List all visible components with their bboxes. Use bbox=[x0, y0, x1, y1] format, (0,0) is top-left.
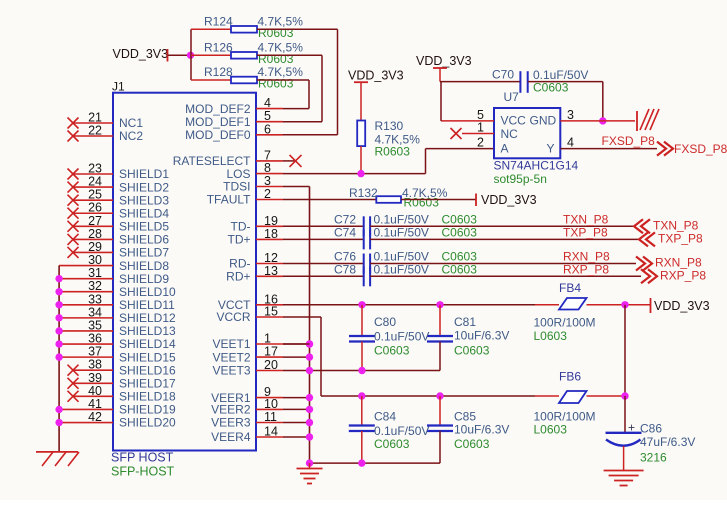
svg-text:2: 2 bbox=[477, 136, 484, 150]
svg-text:FXSD_P8: FXSD_P8 bbox=[602, 134, 656, 148]
svg-text:TXP_P8: TXP_P8 bbox=[658, 232, 703, 246]
svg-text:FXSD_P8: FXSD_P8 bbox=[674, 142, 727, 156]
svg-text:C78: C78 bbox=[334, 262, 356, 276]
svg-text:0.1uF/50V: 0.1uF/50V bbox=[374, 212, 429, 226]
svg-text:SHIELD15: SHIELD15 bbox=[119, 350, 176, 364]
svg-text:SHIELD12: SHIELD12 bbox=[119, 311, 176, 325]
svg-text:R126: R126 bbox=[204, 41, 233, 55]
svg-text:33: 33 bbox=[88, 292, 102, 306]
svg-text:10uF/6.3V: 10uF/6.3V bbox=[454, 329, 509, 343]
svg-text:J1: J1 bbox=[112, 80, 125, 94]
svg-text:23: 23 bbox=[88, 162, 102, 176]
svg-text:37: 37 bbox=[88, 345, 102, 359]
svg-text:SHIELD10: SHIELD10 bbox=[119, 285, 176, 299]
svg-text:LOS: LOS bbox=[226, 167, 250, 181]
svg-text:32: 32 bbox=[88, 279, 102, 293]
svg-text:R128: R128 bbox=[204, 65, 233, 79]
svg-text:R132: R132 bbox=[349, 186, 378, 200]
svg-text:SHIELD6: SHIELD6 bbox=[119, 233, 169, 247]
svg-text:TDSI: TDSI bbox=[223, 180, 250, 194]
svg-text:SN74AHC1G14: SN74AHC1G14 bbox=[494, 159, 579, 173]
svg-text:3216: 3216 bbox=[640, 451, 667, 465]
svg-text:VEET1: VEET1 bbox=[212, 337, 250, 351]
svg-text:+: + bbox=[628, 421, 635, 435]
svg-text:25: 25 bbox=[88, 188, 102, 202]
svg-text:38: 38 bbox=[88, 358, 102, 372]
svg-text:VEER4: VEER4 bbox=[211, 430, 251, 444]
svg-text:NC2: NC2 bbox=[119, 129, 143, 143]
svg-text:C0603: C0603 bbox=[442, 212, 478, 226]
svg-text:0.1uF/50V: 0.1uF/50V bbox=[374, 330, 429, 344]
svg-text:42: 42 bbox=[88, 410, 102, 424]
svg-text:Y: Y bbox=[547, 142, 555, 156]
svg-text:36: 36 bbox=[88, 332, 102, 346]
svg-text:C0603: C0603 bbox=[442, 225, 478, 239]
svg-text:TFAULT: TFAULT bbox=[207, 193, 251, 207]
svg-text:30: 30 bbox=[88, 253, 102, 267]
svg-text:VEER3: VEER3 bbox=[211, 416, 251, 430]
svg-text:NC1: NC1 bbox=[119, 116, 143, 130]
svg-text:SHIELD16: SHIELD16 bbox=[119, 363, 176, 377]
svg-text:C80: C80 bbox=[374, 315, 396, 329]
svg-text:C0603: C0603 bbox=[533, 81, 569, 95]
svg-text:SHIELD14: SHIELD14 bbox=[119, 337, 176, 351]
svg-text:SHIELD1: SHIELD1 bbox=[119, 167, 169, 181]
svg-text:SHIELD4: SHIELD4 bbox=[119, 206, 169, 220]
svg-text:SHIELD3: SHIELD3 bbox=[119, 193, 169, 207]
svg-text:TXN_P8: TXN_P8 bbox=[653, 219, 699, 233]
svg-text:4: 4 bbox=[567, 136, 574, 150]
svg-text:VDD_3V3: VDD_3V3 bbox=[348, 69, 404, 83]
svg-text:0.1uF/50V: 0.1uF/50V bbox=[374, 225, 429, 239]
svg-text:R0603: R0603 bbox=[375, 145, 411, 159]
svg-text:40: 40 bbox=[88, 384, 102, 398]
svg-text:RXP_P8: RXP_P8 bbox=[563, 262, 609, 276]
svg-text:SHIELD9: SHIELD9 bbox=[119, 272, 169, 286]
svg-text:C74: C74 bbox=[334, 225, 356, 239]
svg-text:SHIELD18: SHIELD18 bbox=[119, 390, 176, 404]
svg-text:24: 24 bbox=[88, 175, 102, 189]
svg-text:TD+: TD+ bbox=[227, 233, 250, 247]
svg-text:C0603: C0603 bbox=[454, 437, 490, 451]
svg-text:VEER2: VEER2 bbox=[211, 403, 251, 417]
svg-text:SHIELD13: SHIELD13 bbox=[119, 324, 176, 338]
svg-text:100R/100M: 100R/100M bbox=[534, 316, 596, 330]
svg-text:MOD_DEF2: MOD_DEF2 bbox=[185, 102, 251, 116]
svg-text:39: 39 bbox=[88, 371, 102, 385]
svg-text:RXN_P8: RXN_P8 bbox=[655, 256, 702, 270]
svg-text:MOD_DEF1: MOD_DEF1 bbox=[185, 115, 251, 129]
svg-text:GND: GND bbox=[530, 114, 557, 128]
svg-text:L0603: L0603 bbox=[534, 423, 568, 437]
svg-text:SFP-HOST: SFP-HOST bbox=[111, 465, 175, 479]
svg-text:SHIELD19: SHIELD19 bbox=[119, 403, 176, 417]
svg-text:SHIELD7: SHIELD7 bbox=[119, 246, 169, 260]
svg-text:26: 26 bbox=[88, 201, 102, 215]
svg-text:22: 22 bbox=[88, 124, 102, 138]
svg-text:C0603: C0603 bbox=[374, 437, 410, 451]
svg-text:29: 29 bbox=[88, 240, 102, 254]
svg-text:C0603: C0603 bbox=[374, 344, 410, 358]
svg-text:R0603: R0603 bbox=[258, 77, 294, 91]
svg-text:L0603: L0603 bbox=[534, 329, 568, 343]
svg-text:47uF/6.3V: 47uF/6.3V bbox=[640, 435, 695, 449]
svg-text:SHIELD5: SHIELD5 bbox=[119, 220, 169, 234]
svg-text:35: 35 bbox=[88, 318, 102, 332]
svg-text:R130: R130 bbox=[375, 119, 404, 133]
svg-text:C81: C81 bbox=[454, 315, 476, 329]
svg-text:VDD_3V3: VDD_3V3 bbox=[481, 193, 537, 207]
svg-text:C85: C85 bbox=[454, 410, 476, 424]
svg-text:10uF/6.3V: 10uF/6.3V bbox=[454, 423, 509, 437]
svg-text:C84: C84 bbox=[374, 410, 396, 424]
svg-text:TXN_P8: TXN_P8 bbox=[563, 212, 609, 226]
svg-text:VDD_3V3: VDD_3V3 bbox=[654, 299, 710, 313]
svg-text:0.1uF/50V: 0.1uF/50V bbox=[374, 424, 429, 438]
svg-text:FB4: FB4 bbox=[559, 281, 581, 295]
svg-text:R124: R124 bbox=[204, 15, 233, 29]
svg-text:28: 28 bbox=[88, 227, 102, 241]
svg-text:FB6: FB6 bbox=[559, 370, 581, 384]
svg-text:SHIELD8: SHIELD8 bbox=[119, 259, 169, 273]
svg-text:VEET2: VEET2 bbox=[212, 350, 250, 364]
svg-text:C0603: C0603 bbox=[442, 262, 478, 276]
svg-text:41: 41 bbox=[88, 397, 102, 411]
svg-text:SHIELD2: SHIELD2 bbox=[119, 180, 169, 194]
svg-text:27: 27 bbox=[88, 214, 102, 228]
svg-text:VDD_3V3: VDD_3V3 bbox=[416, 54, 472, 68]
svg-text:SHIELD20: SHIELD20 bbox=[119, 416, 176, 430]
svg-text:TD-: TD- bbox=[231, 220, 251, 234]
svg-text:R0603: R0603 bbox=[258, 26, 294, 40]
svg-text:VCC: VCC bbox=[501, 114, 527, 128]
svg-text:NC: NC bbox=[501, 127, 519, 141]
svg-text:SHIELD17: SHIELD17 bbox=[119, 376, 176, 390]
svg-text:TXP_P8: TXP_P8 bbox=[563, 225, 608, 239]
svg-text:RD+: RD+ bbox=[226, 270, 250, 284]
svg-text:0.1uF/50V: 0.1uF/50V bbox=[374, 262, 429, 276]
svg-text:R0603: R0603 bbox=[404, 196, 440, 210]
svg-text:sot95p-5n: sot95p-5n bbox=[494, 172, 547, 186]
svg-text:SFP HOST: SFP HOST bbox=[111, 451, 174, 465]
svg-text:A: A bbox=[501, 142, 509, 156]
svg-text:21: 21 bbox=[88, 111, 102, 125]
svg-text:100R/100M: 100R/100M bbox=[534, 410, 596, 424]
svg-text:3: 3 bbox=[567, 108, 574, 122]
svg-text:RXP_P8: RXP_P8 bbox=[660, 269, 706, 283]
svg-text:VCCR: VCCR bbox=[216, 310, 250, 324]
svg-text:C86: C86 bbox=[640, 422, 662, 436]
svg-text:C72: C72 bbox=[334, 212, 356, 226]
svg-text:U7: U7 bbox=[504, 90, 520, 104]
svg-text:VDD_3V3: VDD_3V3 bbox=[113, 47, 169, 61]
svg-text:R0603: R0603 bbox=[258, 52, 294, 66]
svg-text:C0603: C0603 bbox=[454, 344, 490, 358]
svg-text:VEET3: VEET3 bbox=[212, 364, 250, 378]
svg-text:SHIELD11: SHIELD11 bbox=[119, 298, 175, 312]
svg-text:C70: C70 bbox=[492, 68, 514, 82]
svg-text:1: 1 bbox=[477, 121, 484, 135]
svg-text:31: 31 bbox=[88, 266, 102, 280]
svg-text:MOD_DEF0: MOD_DEF0 bbox=[185, 128, 251, 142]
svg-text:34: 34 bbox=[88, 305, 102, 319]
